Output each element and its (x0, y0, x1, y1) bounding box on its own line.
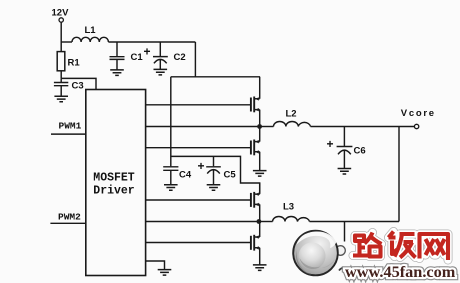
wire C4C5 net (171, 156, 260, 193)
logo sphere (293, 231, 338, 276)
svg-text:12V: 12V (52, 8, 70, 19)
wire Vcore rail (311, 126, 415, 128)
capacitor C4 (163, 167, 178, 185)
svg-text:Driver: Driver (93, 184, 135, 197)
wire 12V rail drop (194, 42, 196, 77)
wire PWM2 input (50, 222, 85, 224)
wire R1 junction to driver top (61, 78, 96, 89)
svg-text:PWM1: PWM1 (59, 121, 82, 132)
wire hidden cap stub (344, 222, 346, 242)
ground C2 (154, 69, 168, 75)
watermark text 路饭网 (353, 232, 448, 261)
transistor Q2 (251, 127, 260, 171)
svg-text:C6: C6 (354, 146, 366, 157)
resistor R1 (57, 52, 65, 71)
capacitor C2 (153, 42, 168, 69)
svg-text:www.45fan.com: www.45fan.com (345, 262, 456, 281)
node Vcore terminal (414, 124, 418, 128)
svg-text:L2: L2 (286, 109, 297, 120)
svg-text:C4: C4 (179, 170, 192, 181)
svg-text:C1: C1 (131, 52, 144, 63)
wire phase1 (146, 126, 260, 128)
svg-text:C2: C2 (174, 52, 186, 63)
wire 12V vertical (60, 22, 62, 78)
wire gate1 (146, 104, 251, 106)
ground Q4 source (253, 265, 267, 271)
capacitor C1 (110, 42, 125, 70)
inductor L2 (274, 122, 311, 127)
inductor L1 (72, 37, 108, 42)
logo hook (336, 246, 346, 256)
wire phase3 (146, 221, 259, 223)
wire gate4 (146, 242, 251, 244)
svg-text:Vcore: Vcore (401, 108, 436, 119)
wire L1 input (61, 41, 72, 43)
ground Q2 source (253, 171, 267, 177)
wire L2 input (260, 126, 274, 128)
ground C1 (110, 70, 124, 76)
svg-text:C5: C5 (224, 170, 237, 181)
transistor Q1 (251, 77, 260, 127)
svg-text:L3: L3 (283, 202, 294, 213)
svg-text:PWM2: PWM2 (58, 212, 81, 223)
svg-text:MOSFET: MOSFET (93, 172, 135, 185)
wire C4 feed vertical x171 (170, 77, 172, 167)
node 12V terminal (59, 18, 63, 22)
ground C3 (54, 96, 68, 102)
svg-text:L1: L1 (85, 25, 97, 36)
op-amp U1 MOSFET driver box (86, 90, 146, 276)
node phase3 junction (257, 219, 262, 224)
capacitor C5 (206, 167, 221, 185)
wire output riser x399 (398, 127, 400, 222)
wire gate3 (146, 199, 251, 201)
ground C6 (338, 169, 352, 175)
inductor L3 (273, 217, 310, 222)
transistor Q4 (251, 222, 260, 265)
svg-text:C3: C3 (72, 81, 84, 92)
svg-text:+: + (327, 137, 334, 151)
watermark tilde (339, 268, 347, 271)
svg-text:+: + (144, 45, 151, 59)
capacitor C3 (54, 78, 68, 96)
wire driver ground (146, 261, 165, 269)
wire L1 to rail corner (108, 41, 195, 43)
capacitor C6 (337, 127, 353, 169)
ground C4 (164, 185, 178, 191)
wire top rail y77 (171, 76, 260, 78)
svg-text:R1: R1 (68, 58, 81, 69)
wire L3 output (310, 221, 400, 223)
wire PWM1 input (51, 133, 86, 135)
transistor Q3 (251, 183, 260, 222)
svg-text:+: + (198, 159, 205, 173)
ground C5 (207, 185, 221, 191)
node phase1 junction (257, 124, 262, 129)
ground driver (158, 270, 172, 276)
watermark group (293, 231, 456, 281)
wire gate2 (146, 147, 251, 149)
wire L3 input (259, 221, 273, 223)
